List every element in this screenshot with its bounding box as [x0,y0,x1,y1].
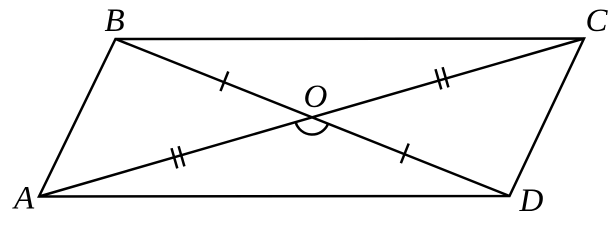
single tick on BO [221,72,229,92]
double tick on OC [436,69,442,89]
quadrilateral ABCD [39,39,584,197]
diagonal AC [39,39,584,197]
svg-text:O: O [304,79,328,115]
svg-text:A: A [12,181,35,217]
single tick on OD [401,144,409,164]
angle arc at O [296,122,329,134]
double tick on AO [172,148,178,168]
svg-text:D: D [519,183,544,219]
svg-text:C: C [586,3,609,39]
svg-text:B: B [105,3,125,39]
diagonal BD [116,39,510,196]
